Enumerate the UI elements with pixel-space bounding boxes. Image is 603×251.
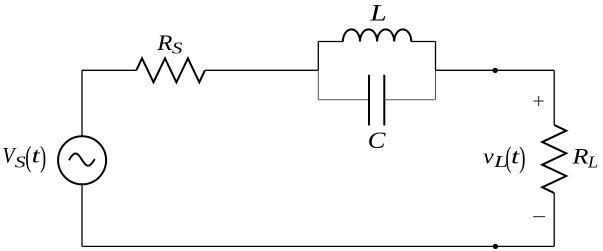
wire: bottom rail — [82, 245, 554, 247]
wire: tank left vertical lower (capacitor branch) — [317, 70, 319, 100]
wire: right vertical lower — [553, 193, 555, 246]
svg-text:R: R — [571, 144, 589, 169]
wire: right vertical upper to R_L — [553, 70, 555, 125]
wire: top-left horizontal from source branch to R_S — [82, 69, 136, 71]
wire: tank bottom rail right lead — [384, 99, 435, 101]
label - (load polarity minus) — [533, 216, 545, 218]
label + (load polarity plus) — [534, 96, 544, 106]
svg-text:C: C — [368, 128, 386, 154]
inductor L (4 bumps) — [343, 29, 411, 41]
wire: tank bottom rail left lead — [318, 99, 369, 101]
source V_S circle — [58, 136, 106, 184]
svg-text:L: L — [587, 152, 598, 171]
node: bottom output junction dot — [493, 244, 498, 249]
resistor R_S — [136, 58, 205, 82]
wire: tank right to load top corner — [436, 69, 555, 71]
wire: tank top rail left lead — [318, 41, 343, 43]
svg-text:(: ( — [25, 140, 31, 173]
svg-text:): ) — [519, 141, 525, 174]
wire: tank top rail right lead — [411, 41, 435, 43]
resistor R_L — [542, 125, 566, 193]
wire: tank right vertical upper — [435, 42, 437, 71]
svg-text:R: R — [156, 30, 173, 55]
wire: left vertical upper (source to top) — [81, 70, 83, 136]
node: top output junction dot — [493, 68, 498, 73]
capacitor C plates — [369, 75, 384, 126]
wire: left vertical lower (bottom to source) — [81, 184, 83, 246]
source sine symbol — [69, 154, 94, 166]
wire: tank left vertical upper (to inductor branch) — [317, 42, 319, 71]
wire: R_S to tank left — [205, 69, 318, 71]
svg-text:): ) — [40, 140, 46, 173]
wire: tank right vertical lower — [435, 70, 437, 100]
svg-text:L: L — [369, 1, 387, 27]
svg-text:v: v — [483, 143, 494, 168]
svg-text:S: S — [172, 39, 183, 58]
